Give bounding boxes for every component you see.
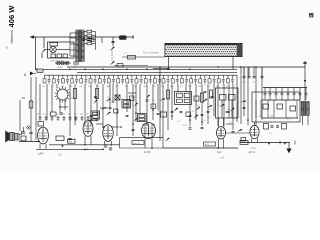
tube V2 trimmers <box>104 145 107 148</box>
ground arrow 1 <box>268 143 270 145</box>
capacitor C1 mains filter <box>83 38 86 40</box>
wire mains end tick <box>132 35 134 39</box>
wire secondary common <box>95 32 97 51</box>
tube V1 AF7 <box>83 121 93 137</box>
wire cathode bus left <box>49 144 120 146</box>
svg-text:a 38: a 38 <box>220 158 225 160</box>
component row labels <box>42 86 229 88</box>
tube pin wires V2 <box>104 141 106 145</box>
capacitor C8 <box>132 128 135 130</box>
small box on mains <box>90 39 94 42</box>
svg-text:Netz E.: Netz E. <box>133 142 140 145</box>
svg-text:1M: 1M <box>152 100 155 102</box>
wire V4 V5 link <box>226 132 250 134</box>
tube pin wires V4 <box>218 139 220 148</box>
wire switch row2 <box>114 65 148 67</box>
waveband switch contact lower <box>110 61 115 65</box>
svg-text:E 40S: E 40S <box>144 151 151 154</box>
svg-text:7000: 7000 <box>68 141 72 143</box>
wire verticals left section <box>20 67 163 141</box>
wire switch row1 <box>122 56 165 58</box>
wire drop x113 <box>112 37 114 46</box>
wire bus 2 <box>36 68 237 70</box>
detector components <box>173 107 178 111</box>
AF bottom row <box>264 124 269 130</box>
capacitor C3 <box>22 131 25 133</box>
wiper mixer grid <box>105 97 110 102</box>
vertical resistor R14 <box>209 90 212 98</box>
small box x162 <box>161 112 167 117</box>
IF transformer IF1 <box>91 111 100 119</box>
ground arrow 2 <box>284 143 286 145</box>
speaker coil box <box>15 134 20 141</box>
svg-text:1M: 1M <box>198 86 201 88</box>
component row under bus <box>43 75 234 84</box>
selector tap 240 <box>57 54 62 58</box>
left mid value row <box>37 114 89 116</box>
capacitor C7 <box>96 118 99 120</box>
mid X box <box>115 95 120 100</box>
svg-text:2M: 2M <box>144 86 147 88</box>
tuning gang hatched box <box>165 44 242 57</box>
left mid cap row <box>39 116 90 121</box>
wire V4 feeds <box>218 118 220 127</box>
svg-text:406 W: 406 W <box>7 5 16 28</box>
svg-text:AL4: AL4 <box>217 151 222 154</box>
AF mid rail <box>262 99 300 101</box>
detector section box <box>216 88 239 118</box>
wiper mixer anode <box>106 111 111 115</box>
mid small caps <box>94 95 97 97</box>
capacitor C4 <box>29 131 32 133</box>
label box Netz <box>132 141 144 145</box>
antenna arrow <box>30 71 34 75</box>
svg-text:1M: 1M <box>270 116 273 118</box>
detector chain right <box>194 96 199 101</box>
dial lamp L1 <box>50 46 56 52</box>
wire x305 arrow to OT <box>304 67 306 101</box>
selector tap 125 <box>63 54 68 58</box>
tube pin wires V0 <box>39 144 41 150</box>
AF section box <box>252 92 300 122</box>
secondary tap row 4 <box>84 43 87 45</box>
resistor R1a <box>128 55 136 59</box>
transformer Tr1 primary winding <box>76 29 79 31</box>
fuse holder blob <box>119 35 127 39</box>
fuse box on selector top <box>50 43 58 46</box>
capacitor C11 <box>232 130 235 132</box>
midfield extra caps <box>90 114 93 116</box>
capacitor C10 <box>201 126 204 128</box>
resistor R3a <box>21 136 26 141</box>
resistor R6 <box>263 104 269 109</box>
wire drop x102 <box>101 37 103 43</box>
wire bottom right line <box>240 142 290 144</box>
midfield links <box>100 107 112 109</box>
vertical resistor R11 <box>95 89 98 99</box>
HT bus right stub cap <box>304 61 306 67</box>
trimmer left <box>27 126 30 129</box>
transformer Tr1 core <box>79 30 81 63</box>
wire HT bus <box>67 66 305 68</box>
waveband switch contact upper <box>110 46 115 50</box>
ground arrow main <box>286 149 291 154</box>
capacitor C6 <box>68 137 71 139</box>
speaker wire <box>19 141 40 143</box>
svg-text:aG: aG <box>252 82 255 84</box>
IF transformer IF2 <box>122 100 131 109</box>
capacitor C5 under coil <box>59 112 62 114</box>
AF inner verticals <box>256 100 297 118</box>
tube pin wires V3 <box>144 138 146 148</box>
resistor R8 <box>290 106 296 111</box>
tube V3 ECH <box>142 123 156 139</box>
pickup jacks <box>73 61 75 65</box>
wire to gang <box>153 67 170 69</box>
secondary tap row 3 <box>84 39 87 41</box>
feedback outline <box>120 137 164 139</box>
coil turret circle <box>55 87 71 103</box>
label box Einstell <box>204 142 216 146</box>
vertical resistor R12 <box>166 90 169 99</box>
svg-text:1M: 1M <box>227 109 230 111</box>
tube V2 AF7 <box>103 125 113 142</box>
vertical resistor R10 <box>73 89 76 99</box>
svg-text:1M: 1M <box>80 114 83 116</box>
small box left mid <box>38 122 44 127</box>
AF top rail <box>263 87 307 89</box>
resistor R2 on left vertical <box>29 101 33 108</box>
switch S1 drop <box>43 37 45 48</box>
gang stub right <box>232 57 234 70</box>
resistor R4 under coil <box>51 112 57 116</box>
tube pin wires V5 <box>251 138 253 142</box>
tube V4 AL4 <box>216 127 225 139</box>
gang stub left <box>168 57 170 70</box>
tube pin wires V1 <box>84 136 86 145</box>
svg-text:2M: 2M <box>22 96 26 100</box>
svg-text:2M: 2M <box>196 105 199 107</box>
svg-text:AF7: AF7 <box>84 149 89 152</box>
wire chassis bus <box>44 74 237 76</box>
left bus label box <box>37 69 43 72</box>
wire verticals right section <box>168 67 262 130</box>
capacitor C2 mains filter <box>88 38 91 40</box>
dial lamps group <box>55 62 71 64</box>
svg-text:Pos. Drucktast.: Pos. Drucktast. <box>143 52 160 55</box>
switch wiper arrows scattered <box>93 95 246 142</box>
resistor R7 <box>277 104 283 109</box>
wire cathode bus left low <box>36 148 103 150</box>
wire cathode bus right <box>163 147 238 149</box>
resistor box small <box>56 136 64 141</box>
arrow bottom left <box>61 145 63 147</box>
IF transformer IF4 box <box>175 92 192 105</box>
transformer Tr1 secondary winding <box>81 29 84 31</box>
AF lower rail <box>262 117 298 119</box>
coil circle leads <box>59 100 61 112</box>
tube V0 AF7 <box>38 127 49 144</box>
switch linkage dashed <box>111 50 113 61</box>
small box near V5 <box>241 138 246 142</box>
junction dots <box>35 66 257 150</box>
wire bus 3 <box>77 71 237 73</box>
AF rail drops <box>264 88 308 101</box>
IF transformer IF3 <box>138 114 147 122</box>
capacitor at x113 <box>112 40 115 42</box>
svg-text:B 41: B 41 <box>251 148 256 150</box>
svg-text:A+D: A+D <box>58 66 63 69</box>
secondary tap row 1 <box>84 31 87 33</box>
resistor R5 bottom right <box>240 140 248 144</box>
wire lower left link <box>36 141 40 143</box>
svg-text:Siemens: Siemens <box>10 30 14 43</box>
wire left border vertical <box>35 37 37 69</box>
secondary tap row 2 <box>84 35 87 37</box>
tube V5 AZ11 rectifier <box>250 125 259 138</box>
resistor R1b <box>117 64 123 67</box>
mains plug arrow <box>30 35 35 38</box>
svg-text:4M: 4M <box>62 114 65 116</box>
vertical resistor R13 <box>200 93 203 102</box>
wire lamp leads <box>46 49 50 51</box>
svg-text:AZ 11: AZ 11 <box>249 151 256 154</box>
OT leads <box>302 115 304 125</box>
sparse right components <box>243 67 245 76</box>
output transformer winding <box>301 101 309 116</box>
capacitor C9 <box>189 127 192 129</box>
wiper between output tubes <box>237 128 243 133</box>
svg-text:4M: 4M <box>107 86 110 88</box>
voltage selector box outline <box>48 42 75 58</box>
svg-text:AF7: AF7 <box>40 153 45 156</box>
wire primary taps <box>70 32 76 34</box>
loudspeaker <box>5 131 9 143</box>
wire mains line <box>31 36 134 38</box>
midfield tiny boxes <box>114 109 119 113</box>
selector tap 220 <box>51 54 56 58</box>
page number 35 <box>309 13 313 17</box>
wire ground stub <box>288 143 290 149</box>
resistor box 7000 <box>68 139 76 143</box>
switch S1 contact <box>41 49 46 54</box>
